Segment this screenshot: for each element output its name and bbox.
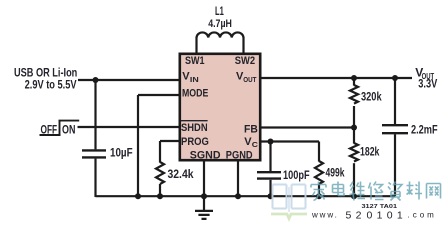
svg-text:L1: L1 [215,4,224,18]
svg-text:10µF: 10µF [110,146,133,160]
svg-text:SW2: SW2 [235,55,255,67]
node VC junction [268,139,274,145]
resistor R2 320k [350,85,358,104]
wire FB pin to divider [261,126,354,128]
svg-text:0101: 0101 [367,210,408,222]
inductor L1 [197,32,244,37]
svg-text:OUT: OUT [243,75,257,84]
svg-text:PGND: PGND [226,149,253,161]
char xiu [369,182,384,200]
char wang [427,184,441,199]
svg-text:182k: 182k [360,145,380,159]
wire PGND pin down [237,161,239,196]
node VOUT rail at output cap [392,75,398,81]
watermark chinese characters [311,182,441,201]
node ground rail at SGND [201,193,207,199]
wire SW2 lead [242,37,244,53]
node ground rail at 499k [316,193,322,199]
node junction dots [93,75,399,199]
wire 182k to ground rail [353,163,355,196]
node ground rail at 32.4k [157,193,163,199]
svg-text:3.3V: 3.3V [418,76,437,90]
resistor R1 32.4k [156,162,164,197]
wire output cap column [394,78,396,196]
svg-text:2.2mF: 2.2mF [411,122,438,136]
wire divider column top [353,78,355,86]
char jia [311,182,326,201]
svg-text:320k: 320k [361,90,382,104]
svg-text:4.7µH: 4.7µH [208,18,232,30]
char zi [388,182,402,201]
node VOUT rail at divider [351,75,357,81]
capacitor C3 2.2mF [382,125,408,133]
node ground rail at 182k [351,193,357,199]
char wei [350,182,366,201]
node FB junction [351,125,357,131]
svg-text:www.: www. [311,211,339,220]
wire PROG pin to resistor R1 [160,141,179,163]
wire ON switch to SHDN pin [78,126,180,128]
wire VC node down to 100pF [269,142,271,172]
svg-text:OFF: OFF [41,122,58,136]
watermark book base swoosh [271,214,307,219]
resistor R4 499k [315,161,323,196]
switch S1 OFF/ON [40,121,80,136]
wire ground rail [96,195,396,197]
svg-text:2.9V to 5.5V: 2.9V to 5.5V [25,77,77,91]
char dian [333,182,345,196]
svg-text:499k: 499k [326,166,345,180]
wire VC corner into 499k [318,142,320,162]
wire SGND pin down [203,161,205,196]
op-amp U1 IC body [180,54,260,160]
wire VC pin to compensation [261,140,319,142]
wire VOUT rail [261,77,412,79]
svg-text:MODE: MODE [182,87,208,99]
wire input cap to ground rail [94,159,96,197]
watermark group [271,182,441,222]
resistor R3 182k [350,143,358,162]
capacitor C1 10uF [82,150,106,157]
svg-text:SW1: SW1 [185,55,205,67]
wire SW1 lead [195,37,197,53]
svg-text:100pF: 100pF [283,168,310,182]
svg-text:32.4k: 32.4k [168,167,194,181]
node ground rail at MODE [135,193,141,199]
wire VIN source to IC [78,79,179,81]
wire 100pF to ground rail [269,180,271,196]
capacitor C2 100pF [257,172,281,178]
node VIN junction [93,77,99,83]
node ground rail at 100pF [268,193,274,199]
svg-text:C: C [252,140,259,149]
watermark book icon [273,185,306,213]
svg-text:SGND: SGND [190,149,221,161]
svg-text:52: 52 [346,210,366,222]
svg-text:.com: .com [408,211,437,220]
char liao [407,182,423,200]
svg-text:SHDN: SHDN [181,122,208,134]
wire VIN column down to input cap [94,80,96,149]
wire between 320k and 182k [353,106,355,144]
svg-text:PROG: PROG [181,136,209,148]
svg-text:ON: ON [62,122,75,136]
watermark url www.520101.com [311,210,437,222]
svg-text:IN: IN [190,75,199,84]
svg-text:FB: FB [244,123,258,135]
node ground rail at PGND [235,193,241,199]
wire MODE pin down to ground rail [138,95,179,197]
ground symbol [195,196,213,219]
